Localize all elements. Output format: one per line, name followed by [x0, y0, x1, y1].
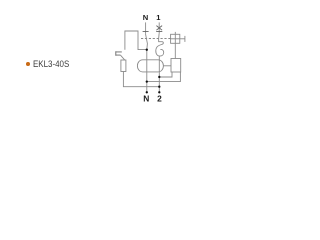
- terminal tick 1 top: [156, 31, 162, 33]
- surge symbol X on terminal 1: [156, 26, 162, 31]
- wire pole 2 vertical: [158, 56, 160, 92]
- junction dot pole2 pin: [158, 76, 160, 78]
- svg-text:N: N: [143, 13, 148, 22]
- terminal dot 2 bottom: [158, 91, 160, 93]
- trip solenoid center line: [171, 38, 180, 40]
- test contact blade: [120, 55, 124, 60]
- junction dot N pin: [146, 80, 148, 82]
- stop bar: [184, 36, 186, 42]
- product label bullet: [26, 62, 30, 66]
- svg-text:N: N: [143, 93, 149, 103]
- relay left pin: [159, 72, 172, 77]
- svg-text:2: 2: [157, 93, 162, 103]
- wire pole N vertical: [146, 50, 148, 93]
- toroid core: [137, 60, 163, 72]
- terminal dot N bottom: [146, 91, 148, 93]
- mechanical linkage dashed: [141, 38, 171, 40]
- junction dot test wire: [158, 86, 160, 88]
- primary winding loop (5-squiggle) pole 1: [156, 39, 164, 57]
- terminal stub N top: [145, 22, 147, 33]
- switch blade pole N: [146, 34, 148, 50]
- armature vertical: [174, 32, 176, 59]
- terminal tick N top: [143, 31, 149, 33]
- product label EKL3-40S: [33, 60, 69, 69]
- switch blade pole 1: [158, 34, 160, 39]
- trip solenoid box: [171, 34, 180, 43]
- line to stop bar: [180, 38, 185, 40]
- test resistor: [121, 60, 126, 72]
- test wire bottom: [123, 72, 159, 87]
- terminal stub 1 top: [158, 22, 160, 33]
- relay box: [171, 59, 181, 73]
- toroid to relay connector: [163, 65, 171, 67]
- junction dot N upper: [146, 49, 148, 51]
- relay right pin: [147, 72, 181, 82]
- test button fork: [116, 51, 122, 56]
- test circuit bracket: [125, 31, 147, 50]
- svg-text:1: 1: [156, 13, 161, 22]
